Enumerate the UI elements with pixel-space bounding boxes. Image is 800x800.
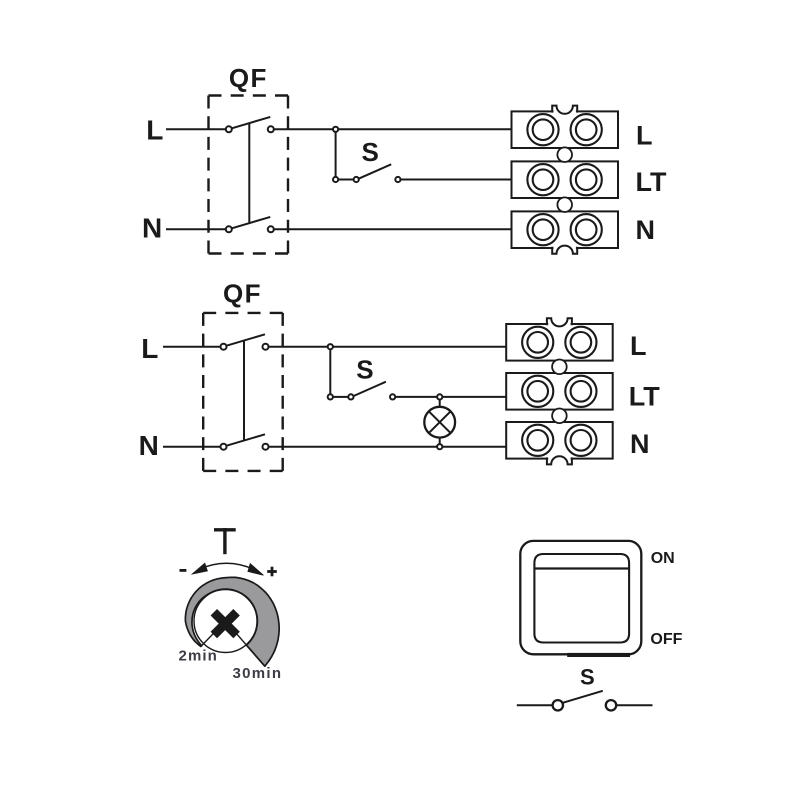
breaker L pole terminals bbox=[221, 344, 269, 350]
svg-text:ON: ON bbox=[651, 550, 675, 567]
timer knob dial gray scale bbox=[185, 577, 279, 666]
svg-text:S: S bbox=[362, 137, 379, 167]
svg-text:QF: QF bbox=[229, 63, 268, 93]
terminal L screw holes bbox=[527, 114, 601, 145]
wire from switch S to lamp junction (diagram 2) bbox=[395, 396, 506, 398]
wire short link to switch (diagram 2) bbox=[333, 396, 348, 398]
svg-text:QF: QF bbox=[223, 278, 262, 308]
terminal block top tab with notch bbox=[547, 318, 572, 326]
dial limit line to 2min tip bbox=[201, 621, 226, 647]
timer T symbol bbox=[214, 528, 236, 554]
breaker L pole terminals bbox=[226, 126, 274, 132]
breaker L pole contact blade bbox=[231, 117, 270, 128]
svg-text:N: N bbox=[630, 429, 650, 459]
svg-text:OFF: OFF bbox=[650, 631, 682, 648]
wire from junction down to lamp bbox=[439, 400, 441, 408]
svg-text:L: L bbox=[146, 115, 163, 146]
svg-text:2min: 2min bbox=[179, 648, 218, 665]
rocker button bbox=[534, 554, 629, 643]
svg-text:LT: LT bbox=[636, 167, 667, 197]
svg-text:N: N bbox=[139, 430, 159, 461]
wire branch down to switch S (diagram 1) bbox=[335, 132, 337, 177]
terminal LT screw holes bbox=[527, 164, 601, 195]
terminal block segment N body bbox=[506, 422, 613, 459]
wire N input (diagram 1) bbox=[166, 228, 226, 230]
switch S contacts (bottom) bbox=[517, 691, 653, 711]
svg-text:S: S bbox=[356, 355, 373, 385]
breaker N pole contact blade bbox=[231, 217, 270, 229]
svg-text:L: L bbox=[630, 331, 647, 361]
terminal block segment L body bbox=[506, 324, 613, 361]
terminal block segment LT body bbox=[506, 373, 613, 410]
rocker top edge line bbox=[534, 567, 629, 569]
terminal block segment L body bbox=[512, 111, 619, 148]
terminal N screw holes bbox=[522, 425, 596, 456]
wire L input (diagram 1) bbox=[166, 128, 226, 130]
rocker bottom black bar bbox=[567, 653, 630, 657]
terminal block bridge hole bbox=[552, 409, 567, 424]
dial limit line to 30min tip bbox=[226, 621, 265, 666]
rotation direction curved arrow bbox=[192, 563, 263, 575]
lamp indicator EL bbox=[424, 407, 455, 438]
breaker QF dashed enclosure bbox=[203, 313, 283, 471]
junction node above lamp on LT wire bbox=[437, 394, 442, 399]
breaker N pole terminals bbox=[221, 444, 269, 450]
terminal block bottom tab with notch bbox=[547, 456, 572, 464]
breaker mechanical link bbox=[248, 123, 250, 223]
node switch feed (diagram 2) bbox=[328, 394, 333, 399]
terminal block bridge hole bbox=[552, 360, 567, 375]
svg-text:N: N bbox=[142, 212, 162, 243]
terminal block top tab with notch bbox=[552, 106, 577, 114]
terminal L screw holes bbox=[522, 327, 596, 358]
junction node on L wire (diagram 2) bbox=[328, 344, 333, 349]
svg-text:L: L bbox=[636, 121, 653, 151]
breaker mechanical link bbox=[243, 340, 245, 440]
knob screw slot cross bbox=[214, 612, 237, 635]
junction node on L wire (diagram 1) bbox=[333, 127, 338, 132]
terminal LT screw holes bbox=[522, 376, 596, 407]
terminal block bridge hole bbox=[557, 147, 572, 162]
terminal block bridge hole bbox=[557, 197, 572, 212]
wire L from breaker to terminal (diagram 2) bbox=[268, 346, 506, 348]
breaker N pole terminals bbox=[226, 226, 274, 232]
terminal block bottom tab with notch bbox=[552, 246, 577, 254]
junction node on N wire below lamp bbox=[437, 444, 442, 449]
breaker QF dashed enclosure bbox=[209, 96, 289, 254]
switch S (diagram 1) bbox=[354, 164, 401, 182]
wire from lamp down to N junction bbox=[439, 438, 441, 445]
terminal block segment N body bbox=[512, 211, 619, 248]
wire branch down to switch S (diagram 2) bbox=[329, 349, 331, 394]
terminal N screw holes bbox=[527, 214, 601, 245]
rocker switch frame bbox=[520, 541, 641, 654]
svg-text:30min: 30min bbox=[233, 665, 283, 682]
node switch feed (diagram 1) bbox=[333, 177, 338, 182]
plus sign (increase time) bbox=[267, 567, 277, 577]
breaker L pole contact blade bbox=[226, 334, 265, 346]
switch S (diagram 2) bbox=[348, 382, 395, 400]
breaker N pole contact blade bbox=[226, 434, 265, 446]
svg-text:N: N bbox=[636, 215, 656, 245]
svg-text:LT: LT bbox=[629, 381, 660, 411]
terminal block segment LT body bbox=[512, 161, 619, 198]
wire N from breaker to terminal (diagram 1) bbox=[274, 228, 512, 230]
wire N from breaker to terminal (diagram 2) bbox=[268, 446, 506, 448]
svg-text:S: S bbox=[580, 665, 595, 690]
wire N input (diagram 2) bbox=[163, 446, 221, 448]
wire short link to switch (diagram 1) bbox=[338, 179, 353, 181]
wire L input (diagram 2) bbox=[163, 346, 221, 348]
wire from switch S to LT terminal (diagram 1) bbox=[401, 179, 512, 181]
timer knob face bbox=[194, 590, 257, 653]
svg-text:L: L bbox=[141, 333, 158, 364]
minus sign (decrease time) bbox=[180, 569, 187, 572]
wire L from breaker to terminal (diagram 1) bbox=[274, 128, 512, 130]
